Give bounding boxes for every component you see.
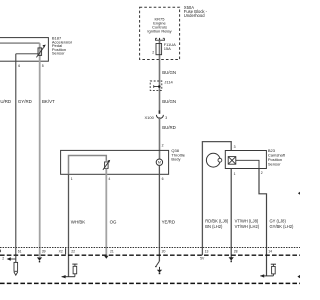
svg-text:2: 2 — [152, 50, 154, 54]
ECM housing dashed line bottom — [0, 282, 300, 284]
motor M throttle — [156, 159, 162, 165]
off-page arrow 2 branch — [10, 258, 16, 260]
svg-text:15A: 15A — [164, 46, 171, 51]
ECM housing dashed line top — [0, 254, 300, 256]
connector divider X2 — [65, 248, 67, 254]
splice J114 dashed box — [150, 81, 162, 90]
wire column E OG — [105, 174, 107, 256]
reluctor notch — [218, 158, 222, 162]
potentiometer wiper arrow B187 — [36, 47, 43, 57]
resistor col I pull-up — [272, 274, 274, 276]
splice symbol J114 — [154, 86, 160, 88]
svg-text:39: 39 — [42, 250, 46, 254]
svg-text:22: 22 — [71, 250, 75, 254]
svg-text:2: 2 — [261, 171, 263, 175]
svg-text:BU/GN: BU/GN — [162, 70, 176, 75]
ground arrow col C — [37, 257, 42, 260]
svg-text:2: 2 — [2, 257, 4, 261]
off-page arrow right bottom — [297, 275, 300, 278]
fuse F11UA — [156, 44, 162, 55]
throttle pot wiper arrow — [103, 161, 110, 170]
svg-text:BN (LH2): BN (LH2) — [205, 224, 223, 229]
reluctor circle — [206, 153, 220, 167]
svg-text:Underhood: Underhood — [184, 13, 205, 18]
accelerator pedal position sensor B187 box — [0, 38, 48, 62]
svg-text:3: 3 — [165, 116, 167, 120]
svg-text:Body: Body — [171, 157, 180, 162]
svg-text:Ignition Relay: Ignition Relay — [147, 28, 171, 33]
svg-text:BK/VT: BK/VT — [42, 99, 55, 104]
Q38 label — [171, 148, 185, 161]
svg-text:1: 1 — [234, 172, 236, 176]
svg-text:5: 5 — [42, 64, 44, 68]
wire column C BK/VT gray — [39, 43, 41, 257]
connector X100 male pin — [159, 110, 161, 113]
wire column B GY/RD — [15, 54, 17, 255]
camshaft sensor outer wire pin3 to 5V — [202, 142, 231, 256]
svg-text:14: 14 — [268, 250, 272, 254]
X1 label clipped — [0, 250, 1, 253]
svg-text:X2: X2 — [59, 250, 63, 254]
B23 label — [268, 148, 286, 167]
svg-text:GY/RD: GY/RD — [18, 99, 32, 104]
fuse label F11UA 15A — [164, 42, 176, 51]
potentiometer body B187 — [38, 48, 42, 56]
wire camshaft internal — [236, 160, 259, 168]
svg-text:VT/WH (LH2): VT/WH (LH2) — [235, 224, 260, 229]
wire B187 internal top — [0, 42, 40, 44]
ground arrow col E — [104, 256, 108, 259]
relay terminal bracket — [155, 39, 165, 41]
wire B187 internal wiper horizontal — [16, 53, 38, 55]
connector X100 cup — [156, 115, 163, 119]
svg-text:M: M — [158, 161, 161, 165]
resistor col D pull-up — [74, 274, 76, 277]
ground arrow col F — [156, 261, 159, 266]
wire column H VT/WH — [230, 169, 232, 258]
svg-text:4: 4 — [108, 177, 110, 181]
hall element X-box — [228, 157, 236, 165]
svg-text:Sensor: Sensor — [52, 51, 65, 56]
throttle body Q38 box — [61, 150, 169, 174]
wire throttle internal L — [69, 156, 107, 175]
wire column F YE/RD — [158, 165, 160, 261]
chevron arrow col B — [14, 272, 18, 275]
svg-text:WH/BK: WH/BK — [71, 220, 85, 225]
main wire fuse to X100 — [159, 60, 161, 111]
svg-text:OG: OG — [110, 220, 117, 225]
wire column I GY with jog — [259, 169, 267, 276]
svg-text:BU/RD: BU/RD — [0, 99, 11, 104]
svg-text:28: 28 — [234, 250, 238, 254]
svg-text:5V: 5V — [200, 256, 205, 260]
svg-text:13: 13 — [205, 250, 209, 254]
ECM connector dotted line — [0, 247, 300, 249]
svg-text:61: 61 — [18, 250, 22, 254]
svg-text:BU/RD: BU/RD — [162, 125, 176, 130]
camshaft position sensor B23 box — [225, 151, 266, 169]
svg-text:X100: X100 — [144, 115, 154, 120]
svg-text:YE/RD: YE/RD — [162, 220, 175, 225]
X50A label — [184, 5, 208, 18]
svg-text:3: 3 — [234, 145, 236, 149]
ECM internal col D wire — [62, 276, 75, 278]
svg-text:20: 20 — [162, 250, 166, 254]
svg-text:2: 2 — [162, 143, 164, 147]
wire through fuse — [159, 40, 161, 59]
ECM internal col I wire — [260, 275, 273, 277]
svg-text:6: 6 — [162, 177, 164, 181]
ECM internal col B wire — [15, 255, 17, 262]
svg-text:1: 1 — [71, 177, 73, 181]
resistor col B — [14, 262, 18, 271]
svg-text:6: 6 — [18, 64, 20, 68]
svg-text:J114: J114 — [164, 80, 173, 85]
svg-text:21: 21 — [110, 250, 114, 254]
relay KR75 label — [147, 17, 171, 34]
B187 label — [52, 35, 73, 55]
svg-text:Sensor: Sensor — [268, 162, 281, 167]
svg-text:GY/BK (LH2): GY/BK (LH2) — [270, 224, 295, 229]
wire column D WH/BK — [68, 174, 70, 276]
fuse block X50A dashed box — [140, 7, 180, 59]
off-page arrow right mid — [298, 192, 300, 195]
wire pot to pin4 — [105, 168, 107, 174]
throttle pot body — [105, 162, 109, 169]
ground arrow col H — [229, 257, 234, 260]
svg-text:BU/GN: BU/GN — [162, 99, 176, 104]
main wire X100 to throttle — [159, 117, 161, 159]
